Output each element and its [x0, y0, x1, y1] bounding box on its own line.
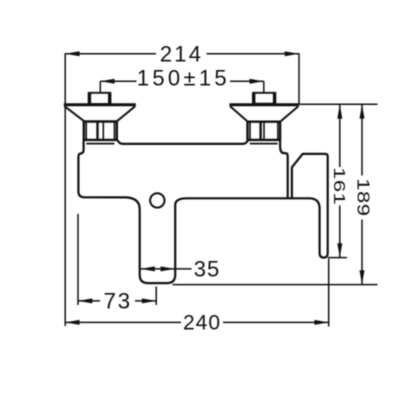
body right shoulder edge — [280, 140, 288, 198]
body top edge between unions — [118, 140, 249, 144]
body top edge under left nut — [86, 143, 114, 145]
bottom reference line 189 — [173, 284, 378, 286]
left union flange — [64, 103, 136, 106]
arrowhead 35 right — [161, 266, 175, 271]
dim line 189 — [361, 104, 363, 175]
bottom reference line 161 — [328, 257, 347, 259]
circle hole — [150, 193, 164, 207]
extension line right of 214 — [298, 53, 300, 104]
arrowhead 73 left — [78, 298, 92, 303]
dim line 214 — [65, 53, 156, 55]
dim line 161 — [339, 104, 341, 167]
arrowhead 161 top — [337, 104, 342, 118]
svg-text:240: 240 — [183, 311, 221, 334]
svg-text:161: 161 — [330, 167, 347, 205]
svg-text:35: 35 — [194, 256, 220, 281]
top reference line (161/189) — [299, 103, 378, 105]
riser right 73 — [155, 287, 157, 306]
arrowhead 240 left — [65, 320, 79, 325]
riser left 73 — [77, 214, 79, 305]
arrowhead 214 right — [285, 51, 299, 56]
left union fitting — [89, 93, 111, 104]
dim line 240 — [65, 321, 181, 323]
svg-text:189: 189 — [353, 178, 372, 216]
dim line 150±15 — [100, 80, 136, 82]
arrowhead 214 left — [65, 51, 79, 56]
arrowhead 73 right — [142, 298, 156, 303]
extension line left (214/240) — [64, 53, 66, 326]
right union flange — [229, 103, 299, 106]
arrowhead 189 top — [360, 104, 365, 118]
arrowhead 150 left — [100, 79, 114, 84]
arrowhead 150 right — [250, 79, 264, 84]
riser left 150 — [99, 81, 101, 92]
riser right 150 — [263, 81, 265, 92]
arrowhead 35 left — [141, 266, 155, 271]
body outline (mixer main silhouette) — [78, 140, 327, 283]
right union nut — [248, 122, 281, 140]
dim line 73 — [78, 300, 100, 302]
left union nut — [84, 122, 117, 140]
dim line 35 leader — [141, 268, 192, 270]
svg-text:73: 73 — [103, 289, 131, 314]
arrowhead 189 bottom — [360, 270, 365, 284]
arrowhead 240 right — [314, 320, 328, 325]
svg-text:214: 214 — [160, 42, 203, 67]
arrowhead 161 bottom — [337, 243, 342, 257]
riser right 240 — [328, 259, 330, 327]
right union fitting — [253, 93, 276, 104]
body top edge under right nut — [250, 143, 278, 145]
svg-text:150±15: 150±15 — [137, 66, 230, 91]
